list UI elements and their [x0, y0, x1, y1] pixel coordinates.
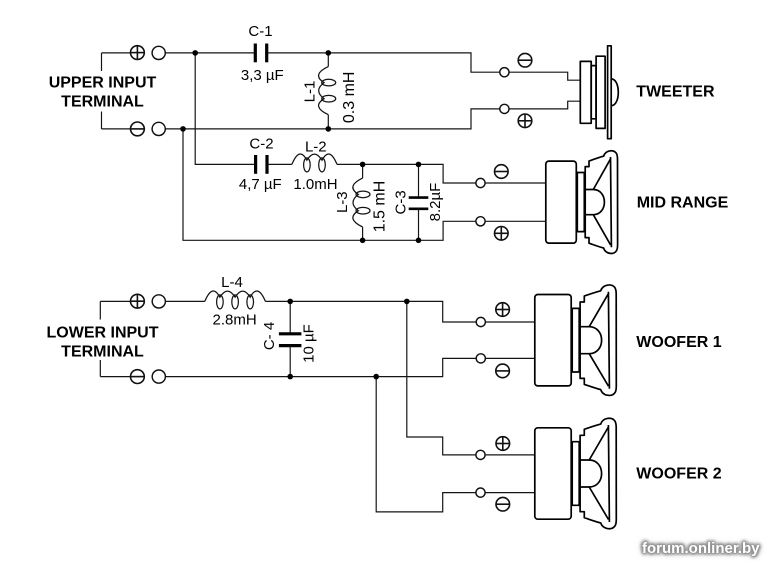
svg-text:C- 4: C- 4: [261, 322, 278, 350]
woofer1 driver symbol: [535, 295, 571, 386]
woofer2 minus polarity: [496, 497, 510, 511]
wire: C-4 node to woofer2 node: [290, 300, 407, 302]
svg-text:0.3 mH: 0.3 mH: [341, 72, 358, 124]
node: upper input plus connector: [152, 46, 165, 59]
inductor L2: [292, 154, 337, 164]
svg-text:L-4: L-4: [221, 274, 243, 291]
node C4 top: [287, 299, 293, 305]
woofer2 plus polarity: [496, 437, 510, 451]
node C3 bottom: [416, 238, 422, 244]
svg-text:C-2: C-2: [249, 136, 273, 153]
node: midrange plus connector: [476, 217, 485, 226]
wire: lower input bottom rail: [165, 376, 290, 378]
node C3 top: [416, 162, 422, 168]
tweeter minus polarity: [518, 53, 532, 67]
wire: tweeter minus circle to driver: [509, 72, 580, 80]
svg-text:2.8mH: 2.8mH: [213, 312, 257, 329]
svg-text:8.2µF: 8.2µF: [427, 183, 444, 222]
svg-text:TERMINAL: TERMINAL: [61, 94, 144, 111]
midrange plus polarity: [495, 227, 509, 241]
svg-text:TWEETER: TWEETER: [636, 84, 715, 101]
node C4 bottom: [287, 374, 293, 380]
upper input terminal bracket: [101, 53, 103, 71]
wire: woofer1 plus circle to driver: [486, 321, 536, 323]
svg-text:MID RANGE: MID RANGE: [637, 195, 729, 212]
capacitor C1: [254, 44, 257, 63]
node: woofer1 minus connector: [476, 354, 485, 363]
wire: upper input bottom rail: [165, 128, 328, 130]
node top rail tap: [192, 50, 198, 56]
wire: top rail junction to tweeter step: [328, 53, 500, 72]
wire: lower input top rail to L-4: [165, 300, 205, 302]
wire: drop from top rail to midrange filter row: [195, 53, 254, 164]
node woofer2 feed: [404, 299, 410, 305]
svg-text:TERMINAL: TERMINAL: [61, 344, 144, 361]
node: tweeter plus connector: [500, 104, 509, 113]
wire: upper input top rail to C-1: [165, 52, 255, 54]
wire: midrange return rail: [363, 239, 419, 241]
svg-text:WOOFER 2: WOOFER 2: [636, 466, 721, 483]
node: lower input plus connector: [152, 295, 165, 308]
wire: branch node to woofer1 minus: [376, 358, 476, 376]
svg-text:LOWER INPUT: LOWER INPUT: [47, 325, 159, 342]
inductor L1: [327, 53, 329, 67]
node L3 top: [360, 162, 366, 168]
wire: drop from bottom rail to midrange return rail: [183, 129, 363, 240]
tweeter driver symbol: [580, 46, 618, 139]
wire: woofer2 node to woofer1 plus: [407, 301, 476, 322]
node C1/L1 top: [326, 50, 332, 56]
wire: C-1 to tweeter junction: [267, 52, 328, 54]
node: woofer2 plus connector: [476, 450, 485, 459]
node bottom rail tap: [180, 126, 186, 132]
inductor L4: [205, 291, 266, 301]
watermark forum.onliner.by: [642, 540, 760, 557]
svg-text:WOOFER 1: WOOFER 1: [636, 334, 721, 351]
wire: return rail to midrange plus: [419, 221, 476, 240]
node: midrange minus connector: [476, 178, 485, 187]
svg-text:C-3: C-3: [393, 190, 410, 214]
svg-text:3,3 µF: 3,3 µF: [241, 67, 284, 84]
upper input minus terminal: [131, 122, 145, 136]
node L3 bottom: [360, 238, 366, 244]
wire: woofer1 minus circle to driver: [486, 357, 536, 359]
wire: woofer2 plus circle to driver: [485, 454, 535, 456]
lower input terminal bracket: [99, 301, 101, 319]
capacitor C4: [289, 301, 291, 334]
wire: L-2 to L-3 node: [337, 163, 363, 165]
node: woofer2 minus connector: [476, 488, 485, 497]
wire: woofer2 plus feed: [407, 301, 476, 455]
wire: C-3 node to midrange minus: [419, 164, 476, 183]
midrange driver symbol: [546, 161, 577, 243]
tweeter plus polarity: [518, 114, 532, 128]
svg-text:10 µF: 10 µF: [301, 324, 318, 363]
svg-text:1.5 mH: 1.5 mH: [372, 181, 389, 233]
wire: C-2 to L-2: [269, 163, 292, 165]
wire: bottom rail to tweeter plus step: [328, 109, 500, 129]
wire: bottom rail to woofer1 minus branch node: [290, 376, 376, 378]
wire: L-3 node to C-3 node: [363, 163, 419, 165]
lower input minus terminal: [131, 370, 145, 384]
woofer1 plus polarity: [496, 303, 510, 317]
svg-text:C-1: C-1: [248, 23, 272, 40]
node: tweeter minus connector: [500, 68, 509, 77]
inductor L3: [362, 164, 364, 178]
wire: midrange minus circle to driver: [485, 182, 546, 184]
svg-text:L-1: L-1: [302, 81, 319, 103]
svg-text:1.0mH: 1.0mH: [293, 176, 337, 193]
node woofer2 return: [373, 374, 379, 380]
wire: woofer2 minus circle to driver: [485, 492, 535, 494]
node L1 bottom: [326, 126, 332, 132]
midrange minus polarity: [495, 165, 509, 179]
upper input plus terminal: [131, 46, 145, 60]
wire: midrange plus circle to driver: [485, 220, 546, 222]
wire: tweeter plus circle to driver: [509, 101, 580, 109]
svg-text:UPPER INPUT: UPPER INPUT: [49, 75, 157, 92]
capacitor C3: [418, 164, 420, 197]
node: upper input minus connector: [152, 122, 165, 135]
woofer2 driver symbol: [535, 428, 571, 519]
node: woofer1 plus connector: [476, 317, 485, 326]
wire: woofer2 minus feed: [376, 377, 476, 512]
svg-text:L-2: L-2: [305, 139, 327, 156]
capacitor C2: [254, 155, 257, 174]
svg-text:L-3: L-3: [334, 191, 351, 213]
node: lower input minus connector: [152, 370, 165, 383]
svg-text:4,7 µF: 4,7 µF: [239, 176, 282, 193]
lower input plus terminal: [131, 294, 145, 308]
woofer1 minus polarity: [496, 364, 510, 378]
wire: L-4 to C-4 node: [265, 300, 290, 302]
